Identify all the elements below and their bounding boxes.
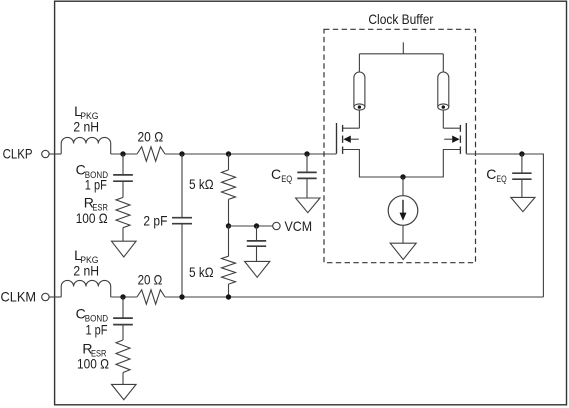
svg-text:2 nH: 2 nH	[73, 262, 99, 278]
wire left load to left drain	[358, 110, 360, 128]
svg-text:20 Ω: 20 Ω	[138, 271, 163, 287]
capacitor CBOND top	[113, 174, 133, 176]
node VCM cap junction	[254, 223, 259, 228]
current source I1	[388, 196, 418, 226]
svg-text:EQ: EQ	[496, 174, 506, 185]
wire 2pF upper	[181, 154, 183, 217]
wire tail to current source	[402, 177, 404, 196]
svg-text:Clock Buffer: Clock Buffer	[368, 11, 433, 27]
ground under RESR top	[112, 241, 137, 257]
wire VCM node to cap	[256, 226, 258, 240]
capacitor CEQ left	[297, 171, 316, 173]
wire current source to ground	[402, 225, 404, 243]
node 5k top	[226, 151, 231, 156]
VCM terminal	[273, 222, 280, 229]
wire right gate rail	[466, 154, 543, 297]
wire RESR to ground top	[122, 228, 124, 242]
svg-text:CLKM: CLKM	[1, 289, 37, 305]
svg-text:1 pF: 1 pF	[85, 177, 107, 193]
load coil right	[438, 72, 449, 107]
svg-text:2 nH: 2 nH	[73, 119, 99, 135]
wire to CEQ left	[306, 154, 308, 172]
wire right drain stub	[443, 127, 460, 129]
wire VCM node to 5k lower	[228, 226, 230, 256]
wire top rail to right load	[442, 54, 444, 72]
wire VCM line	[229, 225, 273, 227]
node CLKM pad	[120, 294, 125, 299]
wire CBOND to RESR top	[122, 181, 124, 197]
resistor 5 kohm lower	[222, 256, 236, 284]
resistor 20 ohm top	[137, 147, 165, 161]
inductor LPKG bottom	[61, 280, 111, 297]
node 2pF top	[179, 151, 184, 156]
wire inductor to node	[111, 153, 137, 155]
ground under CEQ right	[511, 197, 535, 211]
wire node to CBOND bottom	[122, 297, 124, 318]
svg-text:C: C	[271, 166, 281, 182]
wire CBOND to RESR bottom	[122, 325, 124, 340]
svg-text:1 pF: 1 pF	[86, 321, 108, 337]
wire 5k lower to CLKM rail	[228, 284, 230, 297]
node 5k bottom	[226, 294, 231, 299]
svg-text:100 Ω: 100 Ω	[77, 356, 109, 372]
resistor 20 ohm bottom	[137, 290, 165, 304]
svg-text:VCM: VCM	[285, 218, 313, 234]
inductor LPKG top	[61, 137, 111, 154]
ground under RESR bottom	[112, 384, 137, 399]
capacitor VCM bypass	[247, 240, 266, 242]
wire inductor to node bottom	[111, 296, 137, 298]
wire CLKM rail	[165, 296, 543, 298]
svg-text:C: C	[486, 166, 496, 182]
wire to 5k upper	[228, 154, 230, 170]
wire top rail to left load	[358, 54, 360, 72]
ground under CEQ left	[296, 198, 320, 213]
transistor M2	[465, 123, 467, 154]
svg-text:100 Ω: 100 Ω	[76, 210, 108, 226]
wire VCM cap to ground	[256, 246, 258, 261]
wire common source	[343, 150, 461, 178]
wire right load to right drain	[442, 110, 444, 128]
node CEQ right	[519, 151, 524, 156]
clock buffer dashed box	[324, 29, 476, 262]
svg-text:2 pF: 2 pF	[143, 212, 167, 228]
ground under current source	[390, 243, 416, 259]
wire buffer top rail	[359, 53, 443, 55]
resistor 5 kohm upper	[222, 170, 236, 200]
node CEQ left	[304, 151, 309, 156]
node tail	[400, 174, 405, 179]
CLKM input terminal	[42, 293, 49, 300]
resistor RESR top	[116, 197, 130, 227]
svg-text:5 kΩ: 5 kΩ	[189, 264, 214, 280]
node VCM left	[226, 223, 231, 228]
svg-text:5 kΩ: 5 kΩ	[189, 176, 214, 192]
wire RESR to ground bottom	[122, 373, 124, 385]
wire to CEQ right	[521, 154, 523, 173]
node CLKP pad	[120, 151, 125, 156]
svg-text:EQ: EQ	[281, 174, 292, 185]
transistor M1	[336, 123, 338, 154]
wire CLKP rail to left mosfet gate	[165, 153, 337, 155]
capacitor CBOND bottom	[113, 317, 133, 319]
wire left drain stub	[343, 127, 360, 129]
load coil left	[354, 72, 365, 107]
ground under VCM cap	[245, 261, 270, 277]
wire CLKP terminal to inductor	[49, 153, 61, 155]
capacitor CEQ right	[512, 172, 531, 174]
capacitor 2 pF	[172, 217, 192, 219]
svg-text:20 Ω: 20 Ω	[138, 129, 164, 145]
wire CEQ left to ground	[306, 179, 308, 198]
wire CEQ right to ground	[521, 180, 523, 198]
wire supply stub	[402, 42, 404, 54]
wire node to CBOND top	[122, 154, 124, 174]
svg-text:CLKP: CLKP	[3, 146, 33, 162]
wire CLKM terminal to inductor	[49, 296, 61, 298]
resistor RESR bottom	[116, 340, 130, 373]
wire 2pF lower	[181, 224, 183, 297]
wire 5k upper to VCM node	[228, 199, 230, 226]
CLKP input terminal	[42, 150, 49, 157]
node 2pF bottom	[179, 294, 184, 299]
